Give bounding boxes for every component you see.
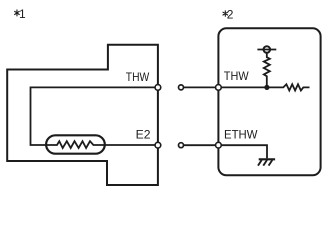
svg-text:THW: THW: [224, 69, 249, 83]
svg-text:ETHW: ETHW: [224, 128, 258, 142]
svg-text:E2: E2: [136, 128, 151, 142]
svg-text:2: 2: [227, 7, 234, 21]
svg-text:1: 1: [19, 7, 26, 21]
svg-text:THW: THW: [126, 70, 150, 84]
